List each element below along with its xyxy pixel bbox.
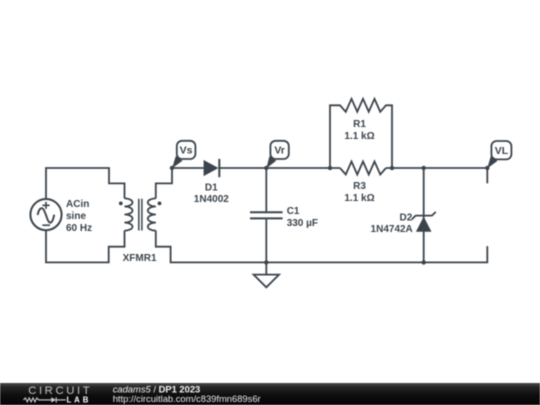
- svg-text:http://circuitlab.com/c839fmn6: http://circuitlab.com/c839fmn689s6r: [113, 393, 261, 404]
- svg-text:sine: sine: [66, 211, 86, 222]
- svg-text:1.1 kΩ: 1.1 kΩ: [344, 131, 374, 142]
- svg-text:VL: VL: [495, 145, 509, 157]
- svg-text:R3: R3: [353, 181, 366, 192]
- svg-text:Vs: Vs: [180, 145, 193, 157]
- svg-text:XFMR1: XFMR1: [123, 253, 157, 264]
- svg-text:R1: R1: [353, 119, 366, 130]
- svg-text:D2: D2: [400, 212, 413, 223]
- svg-text:1N4742A: 1N4742A: [371, 224, 413, 235]
- svg-text:C1: C1: [287, 206, 300, 217]
- svg-text:ACin: ACin: [66, 199, 89, 210]
- svg-text:D1: D1: [205, 183, 218, 194]
- svg-text:LAB: LAB: [67, 396, 92, 405]
- svg-text:1N4002: 1N4002: [194, 194, 229, 205]
- svg-text:Vr: Vr: [274, 145, 285, 157]
- svg-text:330 µF: 330 µF: [287, 218, 318, 229]
- svg-text:60 Hz: 60 Hz: [66, 223, 92, 234]
- svg-text:1.1 kΩ: 1.1 kΩ: [344, 193, 374, 204]
